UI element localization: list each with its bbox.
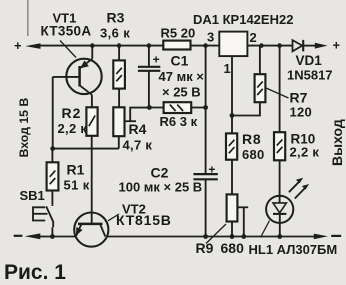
svg-text:VD1: VD1 <box>296 53 323 68</box>
svg-text:1: 1 <box>224 61 231 76</box>
node C1 bottom / R6 left <box>147 105 152 110</box>
resistor R8 <box>226 133 237 194</box>
svg-text:HL1 АЛ307БМ: HL1 АЛ307БМ <box>249 242 338 257</box>
wire VT1 base vertical <box>52 77 54 149</box>
node R7 top <box>259 43 264 48</box>
svg-text:+: + <box>333 38 341 53</box>
resistor R7 <box>232 46 265 116</box>
node SB1 on rail <box>50 234 55 239</box>
pointer line KT815V to VT2 <box>108 214 119 221</box>
transistor VT1 <box>66 46 101 108</box>
svg-text:R8: R8 <box>242 131 262 147</box>
node VT1 emitter on rail <box>90 43 95 48</box>
resistor R3 <box>113 46 125 108</box>
resistor R9 with tap <box>227 194 249 236</box>
node R5/pin3/C2 <box>203 43 208 48</box>
pointer line R9 label <box>206 224 226 244</box>
node R9 tap on rail <box>241 234 246 239</box>
svg-text:680: 680 <box>242 147 265 162</box>
resistor R4 with tap <box>113 107 149 148</box>
wire base net to R4 <box>53 148 119 150</box>
wire diode to output <box>303 45 318 47</box>
wire pin1 of DA1 <box>231 56 233 133</box>
svg-text:120: 120 <box>290 105 313 120</box>
svg-text:2,2 к: 2,2 к <box>58 121 88 136</box>
svg-text:+: + <box>208 162 215 176</box>
svg-text:КТ350А: КТ350А <box>41 24 92 39</box>
node HL1 on rail <box>277 234 282 239</box>
svg-text:R9: R9 <box>196 240 214 256</box>
svg-text:Вход 15 В: Вход 15 В <box>17 98 31 158</box>
svg-text:Рис. 1: Рис. 1 <box>4 261 66 284</box>
arrow bottom-right output <box>314 234 328 240</box>
arrow top-right output <box>315 43 328 49</box>
svg-text:+: + <box>14 38 22 53</box>
svg-text:Выход: Выход <box>329 119 345 166</box>
wire VT1 base horizontal <box>53 76 80 78</box>
svg-text:1N5817: 1N5817 <box>287 68 333 83</box>
resistor R2 <box>86 107 97 136</box>
scan artifact line top-left <box>27 0 29 36</box>
svg-text:680: 680 <box>221 240 245 256</box>
svg-text:КТ815В: КТ815В <box>116 212 172 228</box>
wire bottom rail right <box>106 236 316 238</box>
svg-text:C2: C2 <box>151 165 169 181</box>
svg-text:R5 20: R5 20 <box>161 26 196 41</box>
resistor R10 <box>274 46 285 196</box>
node R9 bottom on rail <box>230 234 235 239</box>
svg-text:47 мк ×: 47 мк × <box>159 69 205 84</box>
svg-text:3: 3 <box>207 30 214 45</box>
switch SB1 <box>33 205 53 237</box>
node base net <box>50 146 55 151</box>
svg-text:4,7 к: 4,7 к <box>123 138 153 153</box>
diode VD1 <box>293 40 304 52</box>
node C2 bottom on rail <box>203 234 208 239</box>
wire bottom rail left <box>40 236 77 238</box>
node pin1 / R7 / R8 <box>230 113 235 118</box>
svg-text:R3: R3 <box>107 10 125 26</box>
svg-text:C1: C1 <box>171 53 189 69</box>
svg-text:× 25 В: × 25 В <box>162 85 201 100</box>
LED HL1 <box>266 178 309 237</box>
arrow top-left <box>25 43 40 49</box>
wire pin2 to diode <box>247 45 292 47</box>
svg-text:R6 3 к: R6 3 к <box>160 114 198 129</box>
svg-text:2,2 к: 2,2 к <box>290 145 320 160</box>
svg-text:R4: R4 <box>129 121 147 137</box>
resistor R6 <box>149 102 205 113</box>
wire R2 bottom to VT2 base <box>91 136 93 224</box>
arrow bottom-left <box>25 233 41 239</box>
node R3 top on rail <box>117 43 122 48</box>
minus dash bottom-left <box>14 235 23 237</box>
node C1/R5 on rail <box>147 43 152 48</box>
svg-text:R2: R2 <box>62 105 82 121</box>
svg-text:100 мк × 25 В: 100 мк × 25 В <box>119 180 203 195</box>
resistor R5 <box>163 41 190 50</box>
minus dash bottom-right <box>331 235 341 237</box>
svg-text:2: 2 <box>250 30 257 45</box>
node R6 right <box>203 105 208 110</box>
svg-text:+: + <box>153 53 160 67</box>
svg-text:51 к: 51 к <box>64 178 90 193</box>
node R10/VD1 <box>277 43 282 48</box>
svg-text:R1: R1 <box>67 162 85 178</box>
capacitor C1 <box>138 46 160 108</box>
resistor R1 <box>47 149 59 205</box>
pointer line R7 label <box>266 88 289 98</box>
svg-text:SB1: SB1 <box>20 188 45 203</box>
pointer line KT350A to VT1 <box>60 41 76 58</box>
svg-text:R7: R7 <box>290 90 308 106</box>
transistor VT2 <box>74 213 108 247</box>
capacitor C2 <box>193 46 217 237</box>
IC DA1 KR142EN22 <box>219 32 247 56</box>
svg-text:3,6 к: 3,6 к <box>100 26 130 41</box>
pointer line HL1 label <box>261 221 270 238</box>
svg-text:DA1 КР142ЕН22: DA1 КР142ЕН22 <box>193 12 293 27</box>
wire top rail <box>39 45 219 47</box>
